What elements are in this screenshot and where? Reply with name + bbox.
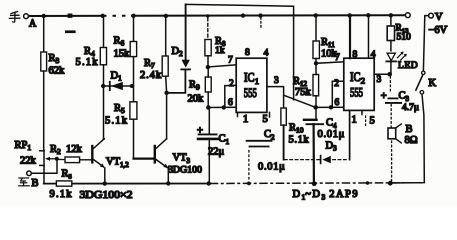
svg-text:6: 6 — [335, 98, 340, 108]
diode D2 — [167, 70, 186, 93]
svg-text:+: + — [381, 91, 387, 102]
svg-text:V: V — [435, 12, 443, 23]
pin 4 wire IC2 — [366, 13, 370, 17]
node C4/R12/pins26 — [313, 105, 318, 110]
wire R11 top — [314, 13, 318, 17]
resistor R6 — [130, 42, 136, 57]
svg-text:3DG100: 3DG100 — [168, 166, 202, 176]
wire tie pins 2-6 — [225, 85, 236, 107]
terminal rail end — [405, 13, 410, 18]
pin 1 stub IC1 — [237, 112, 239, 116]
resistor R10 — [281, 108, 286, 125]
svg-text:1: 1 — [255, 76, 259, 86]
svg-text:4.7μ: 4.7μ — [402, 103, 419, 113]
label 至B drawn glyph — [19, 178, 30, 186]
svg-text:−6V: −6V — [429, 25, 448, 36]
pin 1 drop IC2 to D3 — [349, 110, 351, 159]
svg-text:75k: 75k — [295, 87, 312, 98]
svg-text:20k: 20k — [188, 94, 205, 105]
svg-text:0.01μ: 0.01μ — [258, 162, 286, 173]
svg-text:3: 3 — [377, 75, 382, 85]
op IC2 555 box — [344, 58, 374, 110]
svg-text:5: 5 — [370, 116, 375, 127]
node tie 2-6 — [222, 105, 226, 109]
op IC1 555 box — [236, 58, 267, 112]
resistor R1 (9.1k) on rail — [56, 181, 71, 186]
svg-text:6: 6 — [228, 98, 233, 108]
transistor VT3 — [154, 146, 156, 162]
pin 8 wire IC2 — [348, 13, 352, 17]
svg-text:B: B — [406, 124, 413, 135]
svg-text:9.1k: 9.1k — [50, 189, 73, 200]
svg-text:2: 2 — [229, 79, 234, 89]
svg-text:7: 7 — [335, 53, 340, 63]
wire tie pins 2-6 IC2 — [332, 81, 344, 107]
wire R7 top — [164, 14, 168, 18]
speaker B — [388, 128, 396, 139]
resistor R2 — [57, 158, 65, 160]
svg-text:2: 2 — [334, 79, 339, 89]
capacitor C4 — [315, 107, 317, 119]
RP1 wiper arrow — [48, 158, 57, 160]
svg-text:22μ: 22μ — [208, 147, 225, 158]
node R11/R12/pin7 — [314, 61, 318, 65]
wire R4 top — [101, 14, 105, 18]
svg-text:3DG100×2: 3DG100×2 — [80, 190, 133, 201]
terminal V supply — [429, 13, 434, 18]
transistor VT1 — [91, 146, 93, 162]
svg-text:1: 1 — [243, 114, 248, 125]
svg-text:22k: 22k — [20, 156, 37, 167]
wire C1 — [208, 108, 210, 134]
wire ground rail chain right — [211, 182, 425, 185]
capacitor C3 — [389, 77, 391, 94]
svg-text:510: 510 — [397, 33, 412, 43]
svg-text:1: 1 — [352, 115, 357, 126]
svg-text:2.4k: 2.4k — [140, 70, 162, 81]
terminal A (touch plate) — [24, 14, 29, 19]
wire R4 to D1 node — [103, 65, 105, 86]
wire pin6 IC1 — [208, 106, 236, 108]
svg-text:5: 5 — [263, 114, 268, 125]
svg-text:K: K — [429, 78, 437, 89]
svg-text:3: 3 — [274, 76, 279, 86]
resistor R12 — [313, 75, 319, 96]
capacitor C2 — [247, 140, 272, 142]
wire RP1 bottom to ground rail — [43, 166, 45, 184]
node dot junction at x=43.7 top rail — [42, 14, 46, 18]
wire ground rail solid — [44, 183, 211, 185]
wire top rail — [29, 14, 406, 17]
svg-text:+: + — [197, 126, 203, 137]
svg-text:555: 555 — [350, 86, 363, 100]
pin 5 stub IC2 — [361, 110, 363, 114]
pin 3 wire IC1 to R10 — [267, 87, 284, 108]
wire pin7 IC2 — [316, 62, 344, 64]
wire diagonal to C4 node — [284, 95, 316, 107]
wire upper loop D2 to C4 node — [186, 4, 294, 99]
svg-text:5.1k: 5.1k — [76, 57, 99, 68]
resistor R7 — [162, 56, 168, 76]
svg-text:7: 7 — [228, 56, 233, 66]
wire VT3 collector up — [166, 93, 168, 139]
wire A down — [43, 16, 45, 52]
wire R3 to RP1 — [43, 71, 45, 150]
node VT1 emitter to rail — [103, 181, 107, 185]
node wiper dot — [55, 157, 59, 161]
wire D1 node down to VT1 collector — [103, 86, 105, 139]
node D1 left — [101, 84, 105, 88]
resistor R5 (below D1) — [130, 102, 137, 119]
svg-text:4: 4 — [264, 48, 269, 58]
resistor R8 — [205, 40, 211, 56]
svg-text:0.01μ: 0.01μ — [318, 129, 346, 140]
svg-text:15k: 15k — [114, 49, 131, 60]
svg-text:8: 8 — [353, 50, 358, 60]
terminal B — [27, 171, 32, 176]
switch K — [422, 71, 425, 74]
svg-text:62k: 62k — [49, 66, 66, 77]
svg-text:LED: LED — [398, 61, 418, 71]
svg-text:8: 8 — [245, 48, 250, 58]
node pin6 line left — [206, 105, 211, 110]
resistor R9 — [205, 77, 211, 92]
wire R6 to D1 node — [133, 57, 135, 102]
svg-text:IC: IC — [350, 70, 361, 84]
pin 3 wire IC2 — [374, 73, 390, 75]
wire pin7 IC1 — [208, 65, 236, 67]
pin 4 dotted stub IC1 — [260, 18, 262, 28]
polarity minus mark — [65, 30, 76, 33]
resistor R13 — [389, 13, 393, 17]
svg-text:5.1k: 5.1k — [105, 116, 128, 127]
node R8/R9/pin7 — [206, 65, 210, 69]
wire terminal B to wiper node — [31, 159, 57, 174]
svg-text:B: B — [32, 178, 39, 189]
svg-text:4: 4 — [371, 50, 376, 60]
wire V down to switch — [423, 16, 428, 71]
svg-text:555: 555 — [244, 86, 257, 100]
wire R8 dotted drop — [206, 14, 209, 17]
resistor R11 — [313, 41, 319, 59]
svg-text:12k: 12k — [66, 144, 83, 155]
LED — [387, 53, 395, 60]
decorative splice dot x=70 — [68, 14, 73, 18]
svg-text:8Ω: 8Ω — [405, 135, 418, 146]
label 手 (hand) drawn glyph — [9, 12, 19, 23]
capacitor C1 — [199, 133, 217, 135]
svg-text:IC: IC — [244, 71, 255, 85]
wire R5 to VT3 base — [133, 119, 135, 158]
resistor R3 — [41, 52, 47, 71]
diode D1 — [103, 85, 133, 87]
potentiometer RP1 — [40, 150, 44, 166]
svg-text:A: A — [29, 19, 37, 30]
wire R6 top — [131, 14, 135, 18]
pin 5 stub IC1 — [269, 112, 271, 117]
node R7/D2/VT3 — [164, 91, 168, 95]
resistor R4 — [100, 48, 106, 65]
svg-text:5.1k: 5.1k — [289, 135, 310, 146]
svg-text:1k: 1k — [215, 46, 225, 56]
svg-text:2: 2 — [361, 76, 365, 86]
diode D3 dotted branch — [285, 159, 320, 161]
wire node to IC2 pin6 — [316, 106, 344, 108]
